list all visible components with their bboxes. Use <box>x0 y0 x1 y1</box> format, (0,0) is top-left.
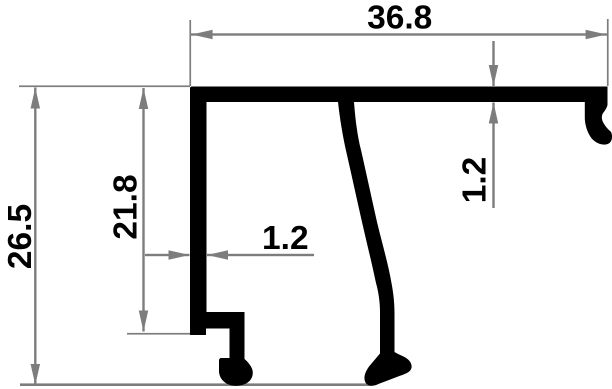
dimension line 1.2 bar lower segment <box>492 103 494 209</box>
dimension line 1.2 wall left segment <box>145 254 190 256</box>
arrow 36.8 right <box>586 30 607 40</box>
svg-text:21.8: 21.8 <box>108 174 145 239</box>
extension line left vertical of 36.8 <box>189 20 191 86</box>
arrow 1.2 wall pointing right <box>169 250 190 260</box>
svg-text:26.5: 26.5 <box>2 204 39 269</box>
dimension line 21.8 <box>142 88 144 332</box>
dimension line 36.8 <box>191 33 608 35</box>
dimension line 26.5 <box>34 88 36 386</box>
svg-text:36.8: 36.8 <box>367 0 432 36</box>
arrow 1.2 bar pointing down <box>489 65 499 86</box>
arrow 21.8 up <box>139 88 149 109</box>
dimension line 1.2 bar upper segment <box>492 41 494 86</box>
extension line bottom of 21.8 <box>127 333 191 335</box>
extension line right vertical of 36.8 <box>607 19 609 86</box>
arrow 1.2 bar pointing up <box>489 103 499 124</box>
arrow 1.2 wall pointing left <box>207 250 228 260</box>
arrow 26.5 down <box>31 364 41 385</box>
profile outline (aluminum section, filled black) <box>190 87 612 386</box>
extension line top-left horizontal (for 26.5/21.8) <box>19 85 190 87</box>
extension line bottom baseline (for 26.5) <box>20 383 372 386</box>
arrow 21.8 down <box>139 311 149 332</box>
arrow 36.8 left <box>192 30 213 40</box>
arrow 26.5 up <box>31 88 41 109</box>
svg-text:1.2: 1.2 <box>457 157 494 204</box>
svg-text:1.2: 1.2 <box>262 220 309 257</box>
dimension line 1.2 wall right segment <box>207 254 314 256</box>
